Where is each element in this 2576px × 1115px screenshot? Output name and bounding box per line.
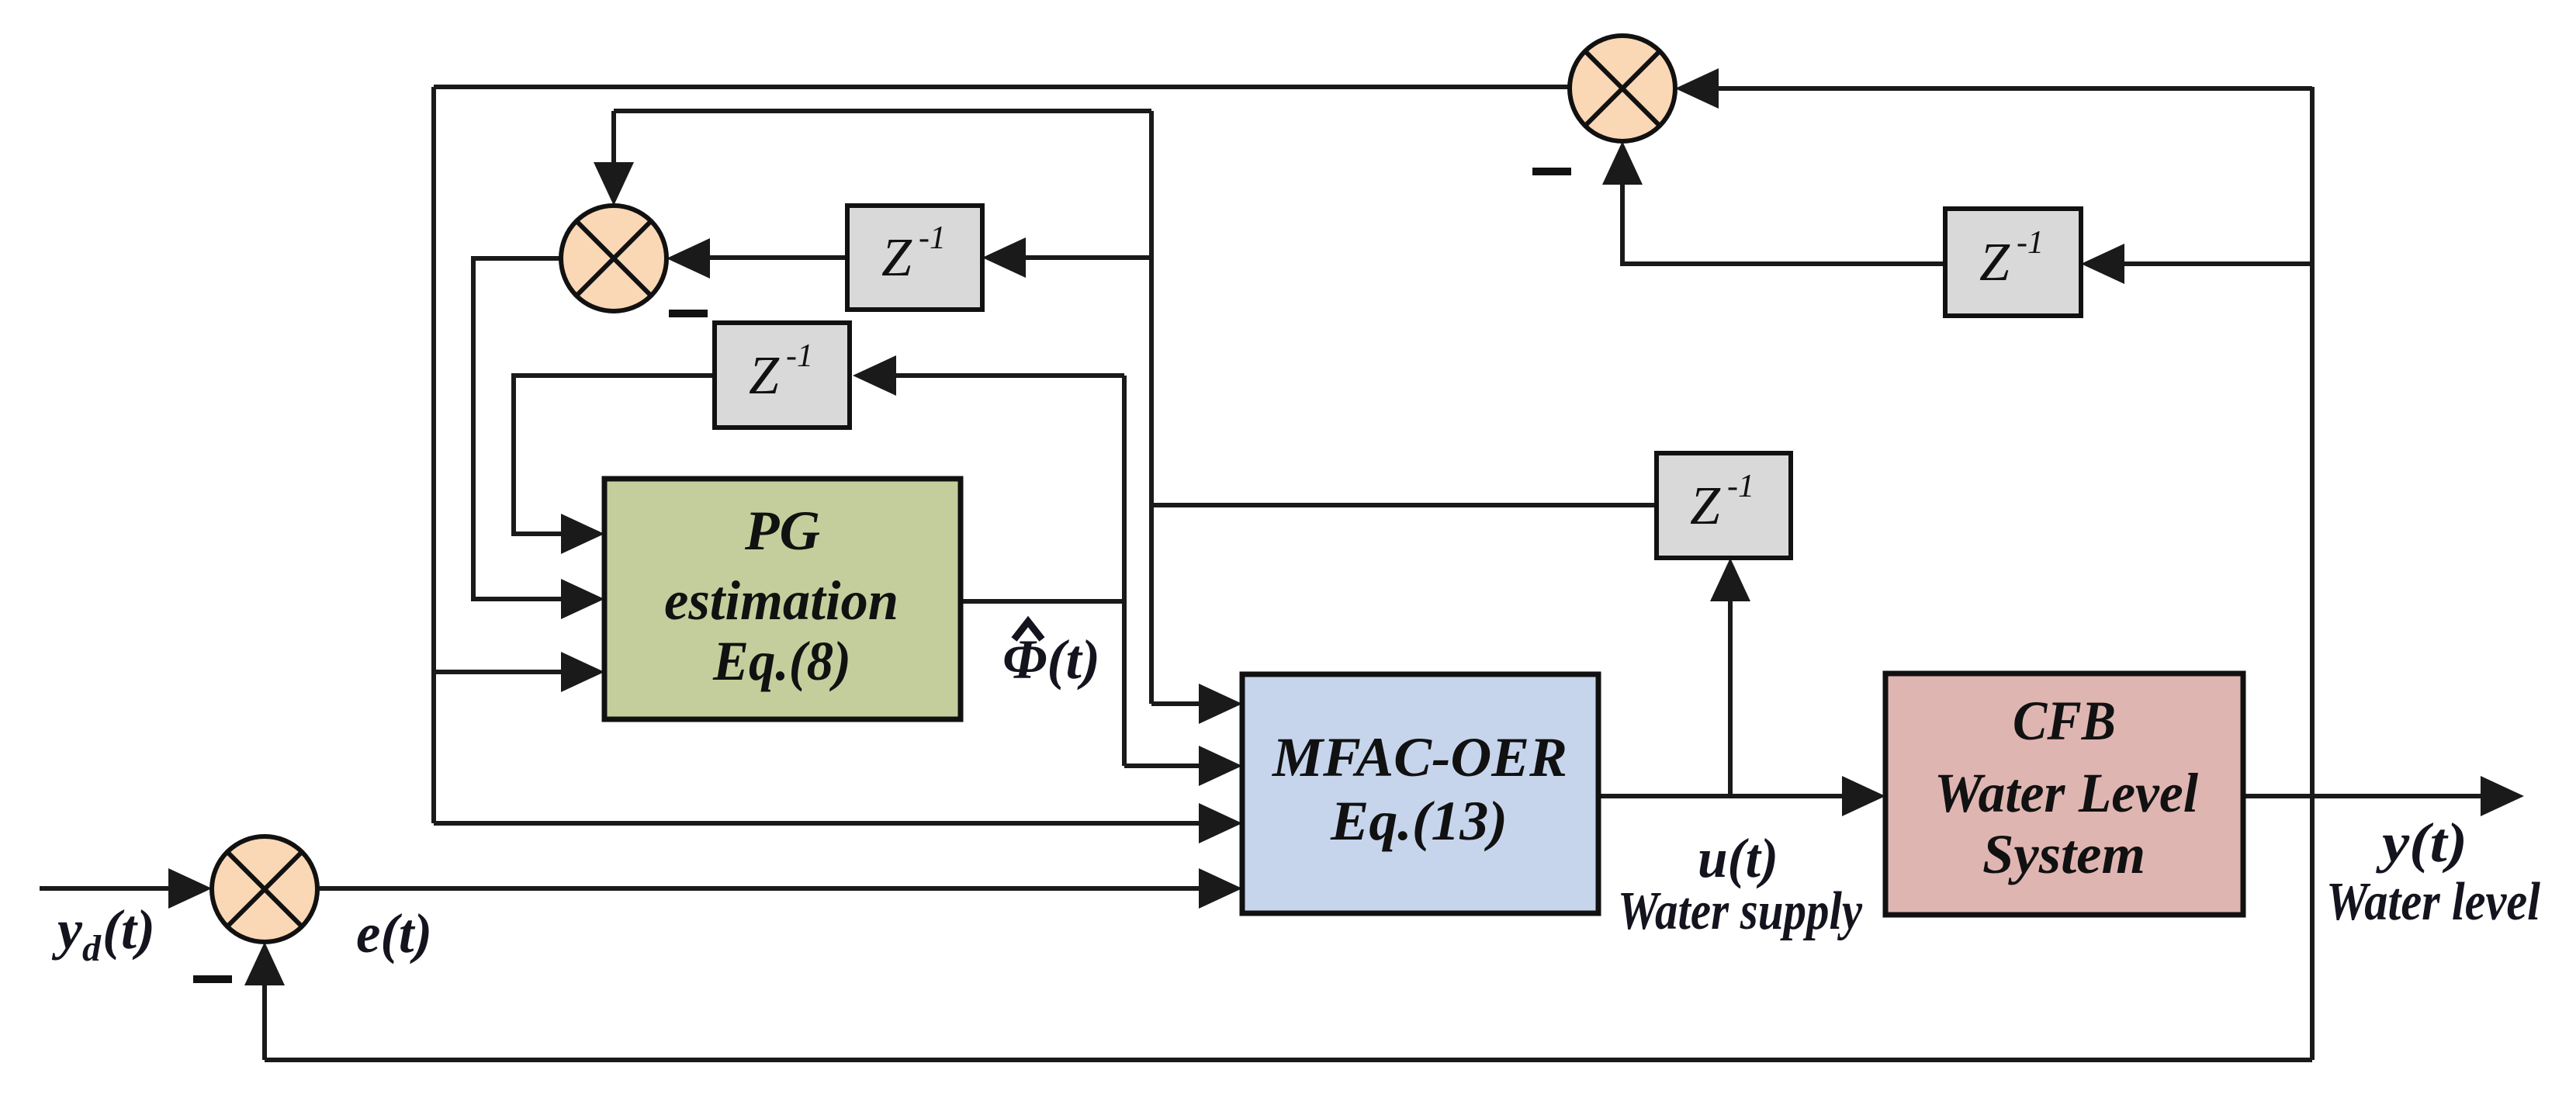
- svg-text:yd(t): yd(t): [51, 899, 155, 969]
- wire Z2 input from vertical x1449 at y484: [887, 373, 1124, 378]
- wire second top line y143 from above S2 to x1484: [614, 109, 1151, 113]
- arrowhead into MFAC input 3: [1199, 803, 1242, 843]
- arrowhead into S2 right: [667, 238, 710, 279]
- block CFB Water Level System: [1885, 674, 2243, 915]
- summing junction S2: [561, 206, 667, 311]
- arrowhead into PG input 2: [561, 579, 604, 619]
- arrowhead into Z4 right edge: [2081, 244, 2124, 284]
- arrowhead into S1 bottom: [244, 942, 285, 985]
- arrowhead into S3 bottom: [1602, 141, 1643, 185]
- arrowhead into S1 left: [168, 868, 212, 909]
- svg-text:e(t): e(t): [356, 902, 432, 964]
- svg-text:-1: -1: [786, 338, 813, 374]
- wire down from (791,143) into S2 top: [611, 111, 616, 172]
- delay block Z4: [1945, 209, 2081, 316]
- svg-text:CFB: CFB: [2013, 690, 2116, 752]
- svg-text:-1: -1: [1727, 469, 1754, 504]
- wire MFAC output u(t) to CFB input: [1598, 794, 1852, 798]
- summing junction S3: [1570, 36, 1675, 141]
- wire e(t) from S1 right to MFAC input 4: [317, 886, 1209, 891]
- svg-text:estimation: estimation: [664, 570, 898, 632]
- wire bottom feedback line y1366: [265, 1058, 2312, 1062]
- arrowhead output y(t): [2481, 776, 2524, 816]
- svg-text:System: System: [1982, 823, 2145, 885]
- wire from (1484,907) right to MFAC input 1: [1151, 701, 1209, 706]
- wire PG output Phi(t) from right edge to vertical x1449: [961, 599, 1124, 604]
- wire reference input yd(t) into S1: [40, 886, 175, 891]
- delay block Z1: [847, 206, 982, 310]
- arrowhead into CFB left: [1842, 776, 1885, 816]
- svg-text:y(t): y(t): [2375, 812, 2467, 874]
- wire from x1484 T at y332 left to Z1 input: [1016, 255, 1151, 260]
- arrowhead into MFAC input 1: [1199, 684, 1242, 724]
- svg-text:Water level: Water level: [2326, 872, 2540, 932]
- wire Z1 output to S2 right input: [701, 255, 847, 260]
- minus sign at S3: [1532, 168, 1571, 175]
- wire u(t) branch up x2230 into Z3 bottom: [1728, 591, 1733, 796]
- arrowhead into PG input 3: [561, 652, 604, 692]
- wire from x2980 top corner left to S3 right input: [1709, 86, 2312, 91]
- delay block Z3: [1657, 453, 1791, 558]
- wire Z3 output left at y651 to vertical x1484: [1151, 503, 1657, 507]
- arrowhead into S3 right: [1675, 68, 1719, 109]
- svg-text:PG: PG: [744, 500, 820, 562]
- summing junction S1: [212, 836, 317, 942]
- svg-text:Z: Z: [1979, 233, 2010, 293]
- wire S2 output left then down x610 then right to PG input 2: [473, 258, 570, 599]
- wire left vertical x559 from top line down to y1061: [431, 87, 436, 823]
- arrowhead into Z3 bottom: [1710, 558, 1750, 601]
- svg-text:Water Level: Water Level: [1934, 762, 2198, 824]
- wire top output line of summing junction S3 going left to x557: [434, 85, 1571, 89]
- wire Z4 input from x2980 at y340: [2115, 261, 2312, 266]
- svg-text:MFAC-OER: MFAC-OER: [1272, 726, 1567, 788]
- wire left vertical x341 from bottom line up into S1 bottom: [262, 975, 267, 1060]
- minus sign at S1: [193, 975, 232, 983]
- svg-text:Z: Z: [881, 228, 912, 288]
- wire Z2 output left then down x662 then right to PG input 1: [514, 376, 715, 534]
- arrowhead into Z2 right edge: [853, 355, 896, 396]
- svg-text:Z: Z: [1690, 476, 1721, 536]
- minus sign at S2: [669, 310, 708, 317]
- arrowhead into MFAC input 2: [1199, 746, 1242, 786]
- svg-text:Water supply: Water supply: [1618, 881, 1863, 941]
- arrowhead into S2 top: [594, 162, 634, 206]
- wire from (559,1061) right to MFAC-OER input 3: [434, 821, 1209, 826]
- wire from (1449,987) right to MFAC input 2: [1124, 764, 1209, 768]
- arrowhead into PG input 1: [561, 514, 604, 554]
- delay block Z2: [715, 323, 850, 428]
- block PG estimation Eq.(8): [604, 479, 961, 719]
- block MFAC-OER Eq.(13): [1242, 674, 1598, 913]
- svg-text:-1: -1: [919, 220, 946, 256]
- arrowhead into Z1 right edge: [982, 237, 1026, 278]
- wire vertical x1484 from y143 down to y907: [1149, 111, 1154, 704]
- wire branch at (559,866) to PG estimation input 3: [434, 670, 570, 674]
- wire right vertical x2980 from y112 down to bottom y1366: [2310, 87, 2315, 1060]
- svg-text:-1: -1: [2017, 225, 2044, 261]
- svg-text:Eq.(8): Eq.(8): [712, 630, 851, 692]
- wire vertical x1449 from y484 down to y987: [1122, 376, 1127, 766]
- svg-text:Eq.(13): Eq.(13): [1330, 790, 1508, 852]
- svg-text:u(t): u(t): [1698, 827, 1778, 889]
- svg-text:Z: Z: [749, 346, 780, 406]
- arrowhead into MFAC input 4: [1199, 868, 1242, 909]
- wire CFB output y(t) to right arrow: [2243, 794, 2491, 798]
- wire Z4 output left then up into S3 bottom: [1622, 175, 1945, 264]
